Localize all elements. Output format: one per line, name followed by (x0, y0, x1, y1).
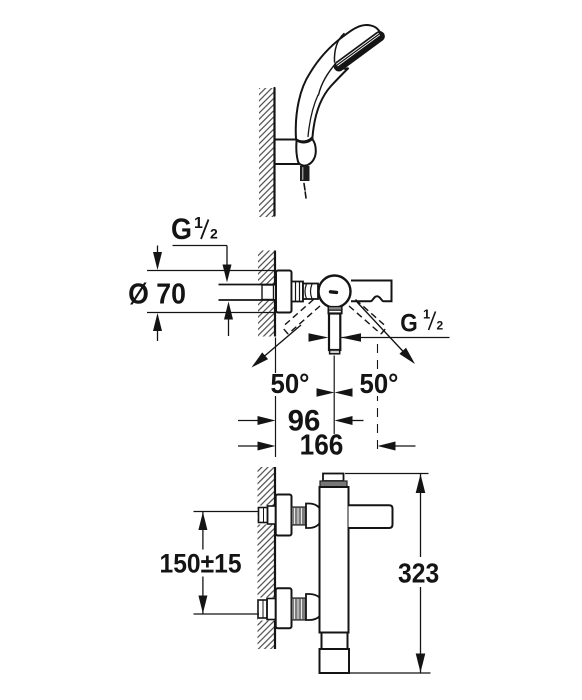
svg-text:50°: 50° (271, 368, 310, 399)
svg-text:1: 1 (194, 215, 203, 232)
svg-text:150±15: 150±15 (159, 550, 241, 579)
svg-text:323: 323 (398, 557, 439, 589)
svg-text:2: 2 (210, 226, 218, 242)
svg-text:166: 166 (300, 428, 344, 460)
svg-text:Ø 70: Ø 70 (128, 277, 186, 309)
svg-text:G: G (400, 309, 418, 337)
svg-text:50°: 50° (360, 368, 399, 399)
svg-text:2: 2 (437, 319, 444, 333)
svg-text:1: 1 (423, 307, 430, 322)
svg-text:G: G (171, 213, 192, 247)
